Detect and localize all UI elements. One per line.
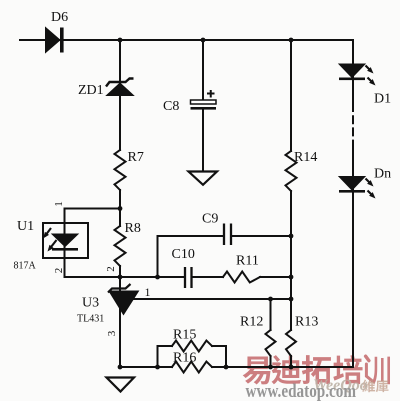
svg-text:TL431: TL431 — [77, 314, 104, 325]
svg-text:U1: U1 — [17, 219, 34, 234]
svg-text:C9: C9 — [202, 212, 218, 227]
svg-text:www.edatop.com: www.edatop.com — [246, 380, 357, 401]
svg-text:817A: 817A — [14, 261, 37, 272]
svg-text:C8: C8 — [163, 99, 179, 114]
svg-text:D6: D6 — [51, 10, 68, 25]
svg-text:R15: R15 — [173, 328, 196, 343]
svg-text:2: 2 — [53, 268, 65, 274]
svg-text:1: 1 — [53, 201, 65, 207]
svg-text:R7: R7 — [128, 150, 144, 165]
svg-text:U3: U3 — [82, 296, 99, 311]
svg-text:2: 2 — [105, 266, 117, 272]
svg-text:R11: R11 — [236, 254, 259, 269]
svg-text:ZD1: ZD1 — [78, 83, 104, 98]
svg-text:D1: D1 — [374, 92, 391, 107]
svg-text:1: 1 — [145, 285, 151, 299]
svg-text:R8: R8 — [125, 221, 141, 236]
svg-text:3: 3 — [106, 330, 118, 336]
svg-text:R13: R13 — [295, 315, 318, 330]
svg-text:Dn: Dn — [374, 167, 391, 182]
svg-text:R12: R12 — [240, 315, 263, 330]
svg-text:R14: R14 — [294, 150, 317, 165]
svg-text:C10: C10 — [172, 247, 195, 262]
svg-text:R16: R16 — [173, 351, 196, 366]
